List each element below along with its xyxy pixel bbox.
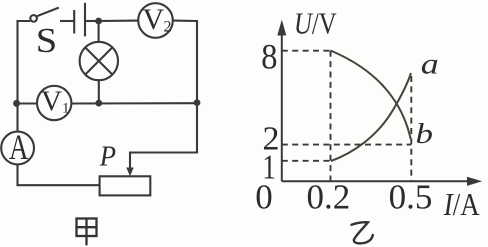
- label V1: [41, 86, 70, 118]
- voltmeter V1: [37, 86, 71, 120]
- wire ammeter to rheostat left terminal: [18, 164, 100, 185]
- x axis arrowhead: [467, 177, 482, 186]
- svg-text:a: a: [421, 47, 439, 80]
- svg-text:b: b: [416, 118, 433, 149]
- svg-text:V: V: [41, 86, 62, 118]
- wire battery to node: [85, 20, 99, 22]
- label jia (figure 1 caption): [77, 219, 97, 245]
- y axis (U/V): [282, 30, 470, 181]
- wire lamp to middle node: [98, 80, 100, 103]
- dashed line U=1: [282, 160, 331, 162]
- wire V1 to right node: [71, 102, 197, 104]
- wire left node to voltmeter V1: [16, 102, 37, 104]
- switch S: [30, 8, 59, 22]
- dashed line U=2: [282, 144, 412, 146]
- node junction right: [194, 99, 201, 106]
- node junction battery-lamp: [95, 18, 102, 25]
- svg-text:0.5: 0.5: [389, 178, 433, 217]
- label yi (figure 2 caption): [352, 222, 373, 243]
- y axis arrowhead: [277, 20, 286, 36]
- wire switch to battery: [60, 20, 74, 22]
- wire right node down to wiper: [130, 103, 197, 169]
- svg-text:0: 0: [255, 178, 273, 217]
- wire V2 to right rail: [173, 21, 197, 103]
- svg-text:V: V: [143, 3, 165, 36]
- lamp L: [80, 42, 118, 80]
- dashed line I=0.5: [410, 76, 412, 181]
- rheostat P body: [100, 176, 151, 195]
- label V2: [143, 3, 172, 36]
- svg-text:I/A: I/A: [443, 188, 480, 223]
- node junction left: [13, 100, 20, 107]
- dashed line U=8: [282, 50, 331, 52]
- dashed line I=0.2: [330, 51, 332, 182]
- ammeter A: [1, 132, 34, 165]
- svg-text:U/V: U/V: [294, 7, 337, 41]
- svg-text:S: S: [36, 20, 57, 59]
- svg-text:1: 1: [62, 101, 70, 117]
- curve b (falling): [331, 51, 411, 140]
- wire node to voltmeter V2: [99, 20, 139, 22]
- voltmeter V2: [138, 3, 173, 38]
- svg-text:A: A: [9, 127, 29, 167]
- wiper arrow of rheostat: [126, 168, 133, 177]
- curve a (rising): [331, 73, 411, 161]
- svg-text:P: P: [99, 141, 116, 172]
- wire node down to lamp: [98, 21, 100, 42]
- svg-text:2: 2: [164, 19, 172, 36]
- node junction middle: [95, 100, 102, 107]
- wire top-left corner to switch: [18, 21, 31, 104]
- battery cell: [74, 3, 85, 37]
- wire left node down to ammeter: [16, 103, 18, 131]
- svg-text:0.2: 0.2: [307, 178, 351, 217]
- svg-text:8: 8: [261, 37, 277, 77]
